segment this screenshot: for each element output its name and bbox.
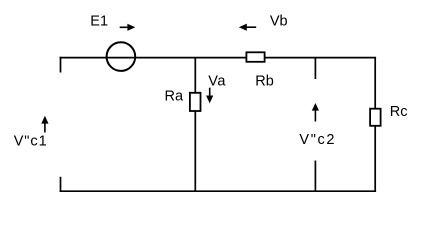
arrow: V"c1 voltage reference (points up): [41, 116, 48, 133]
resistor Rb: [246, 52, 264, 62]
svg-text:Rb: Rb: [255, 74, 274, 90]
voltage source E1 (circle with through-wire): [107, 42, 136, 71]
label Vb: [270, 14, 288, 30]
svg-text:E1: E1: [90, 13, 108, 29]
arrow: E1 emf direction (points right): [120, 24, 136, 31]
wire: top horizontal net from left terminal through E1 and Rb to right branch: [60, 57, 377, 59]
arrow: Vb voltage reference (points left): [239, 24, 256, 31]
arrow: Va voltage reference (points down): [206, 88, 213, 104]
arrow: V"c2 voltage reference (points up): [312, 103, 319, 122]
wire: V"c2 lower open stub: [314, 161, 316, 192]
wire: bottom-left open terminal stub: [60, 177, 62, 192]
svg-text:V"c1: V"c1: [14, 133, 48, 149]
wire: bottom horizontal return net: [60, 190, 377, 192]
resistor Rc: [370, 109, 381, 126]
wire: Ra branch vertical: [194, 58, 196, 192]
svg-text:Rc: Rc: [390, 104, 408, 120]
svg-text:Ra: Ra: [165, 88, 184, 104]
wire: top-left open terminal stub: [60, 57, 62, 73]
label Va: [208, 74, 226, 90]
label V"c2: [299, 132, 336, 148]
label V"c1: [14, 133, 48, 149]
label Rc: [390, 104, 408, 120]
svg-text:V"c2: V"c2: [299, 132, 336, 148]
label Ra: [165, 88, 184, 104]
label E1: [90, 13, 108, 29]
label Rb: [255, 74, 274, 90]
svg-text:Vb: Vb: [270, 14, 288, 30]
svg-text:Va: Va: [208, 74, 226, 90]
wire: right branch vertical through Rc: [374, 58, 376, 192]
wire: V"c2 upper open stub: [314, 58, 316, 79]
resistor Ra: [190, 93, 201, 111]
